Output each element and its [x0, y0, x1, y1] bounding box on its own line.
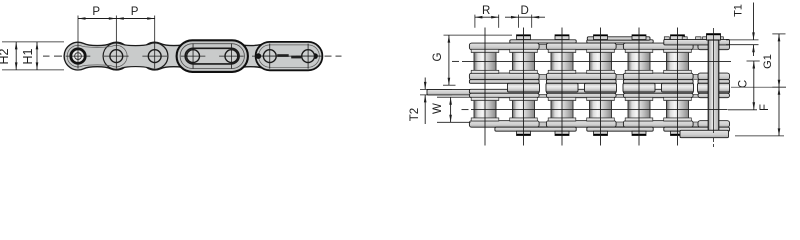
svg-text:D: D: [520, 5, 528, 17]
svg-text:W: W: [432, 103, 444, 114]
svg-text:H1: H1: [21, 48, 35, 64]
svg-text:G1: G1: [762, 54, 774, 69]
svg-text:G: G: [432, 52, 444, 61]
svg-text:R: R: [482, 5, 490, 17]
svg-text:F: F: [759, 104, 771, 111]
svg-text:T2: T2: [409, 108, 421, 121]
svg-text:T1: T1: [733, 4, 745, 17]
svg-text:P: P: [131, 6, 139, 18]
svg-text:P: P: [92, 6, 100, 18]
svg-text:H2: H2: [0, 48, 11, 64]
